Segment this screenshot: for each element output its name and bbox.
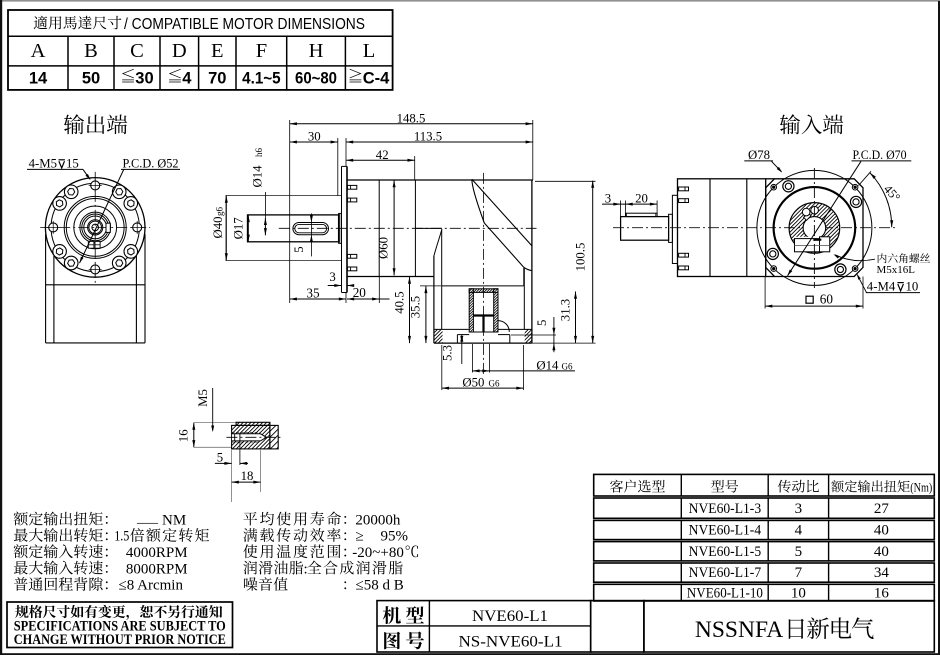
svg-text:5: 5 (795, 544, 803, 560)
svg-text:C-4: C-4 (363, 70, 390, 88)
svg-text:Ø78: Ø78 (748, 148, 770, 162)
svg-text:(Nm): (Nm) (910, 480, 932, 494)
svg-text:5.3: 5.3 (441, 345, 455, 361)
svg-text:-20~+80: -20~+80 (352, 545, 404, 561)
svg-text:NVE60-L1: NVE60-L1 (472, 608, 548, 625)
svg-text:31.3: 31.3 (558, 299, 572, 321)
svg-text:M5: M5 (196, 389, 210, 407)
svg-text:35: 35 (306, 286, 320, 301)
svg-text:20: 20 (353, 285, 367, 300)
svg-text:113.5: 113.5 (414, 129, 442, 143)
svg-text:14: 14 (29, 70, 48, 88)
svg-text:5: 5 (292, 246, 306, 252)
svg-text:60~80: 60~80 (295, 70, 337, 88)
svg-text:≤58 d B: ≤58 d B (356, 578, 404, 594)
svg-text:95%: 95% (381, 529, 409, 545)
svg-text:10: 10 (906, 279, 919, 293)
svg-text:P.C.D. Ø52: P.C.D. Ø52 (123, 156, 179, 170)
svg-text:7: 7 (795, 565, 803, 581)
svg-text:42: 42 (376, 148, 389, 162)
svg-text:20: 20 (635, 192, 648, 206)
svg-text:4: 4 (182, 70, 192, 88)
svg-text:16: 16 (874, 586, 890, 602)
svg-text:P.C.D. Ø70: P.C.D. Ø70 (853, 148, 907, 162)
svg-text:≤8 Arcmin: ≤8 Arcmin (119, 578, 184, 594)
svg-text:E: E (211, 40, 224, 62)
svg-text:4: 4 (795, 523, 803, 539)
svg-text:C: C (130, 40, 144, 62)
svg-text:≥: ≥ (356, 529, 364, 545)
svg-text:3: 3 (795, 501, 803, 517)
svg-text:NVE60-L1-4: NVE60-L1-4 (689, 523, 762, 539)
svg-text::: : (304, 561, 308, 577)
svg-text:3: 3 (329, 270, 335, 284)
svg-text:16: 16 (177, 429, 191, 442)
svg-text:1.5: 1.5 (114, 529, 129, 545)
svg-text:27: 27 (874, 501, 890, 517)
svg-text:50: 50 (82, 70, 100, 88)
svg-text:60: 60 (820, 291, 834, 306)
svg-text:148.5: 148.5 (397, 111, 426, 125)
svg-text:8000RPM: 8000RPM (126, 561, 188, 577)
svg-text:34: 34 (874, 565, 890, 581)
svg-text:Ø14: Ø14 (536, 358, 559, 372)
svg-text:L: L (363, 40, 376, 62)
svg-text:h6: h6 (254, 148, 264, 158)
svg-text:Ø40: Ø40 (211, 216, 225, 238)
svg-text:Ø14: Ø14 (250, 165, 264, 188)
svg-text:100.5: 100.5 (574, 243, 588, 272)
svg-text:40: 40 (874, 523, 889, 539)
svg-text:NS-NVE60-L1: NS-NVE60-L1 (459, 634, 563, 651)
svg-text:H: H (309, 40, 324, 62)
svg-text:70: 70 (208, 70, 226, 88)
svg-text:___: ___ (136, 511, 159, 526)
svg-text:5: 5 (217, 450, 223, 464)
svg-text:4.1~5: 4.1~5 (242, 70, 281, 88)
svg-text:30: 30 (135, 70, 153, 88)
svg-text:18: 18 (241, 469, 254, 483)
svg-text:M5x16L: M5x16L (877, 264, 916, 276)
svg-text:F: F (256, 40, 267, 62)
svg-text:A: A (31, 40, 46, 62)
svg-text:NVE60-L1-3: NVE60-L1-3 (689, 501, 762, 517)
svg-text:G6: G6 (489, 378, 500, 388)
svg-text:g6: g6 (215, 207, 225, 217)
svg-text:B: B (84, 40, 98, 62)
svg-text:D: D (172, 40, 187, 62)
svg-text:35.5: 35.5 (409, 296, 423, 318)
svg-text:Ø17: Ø17 (231, 217, 245, 240)
svg-text:NM: NM (162, 512, 186, 528)
svg-text:CHANGE WITHOUT PRIOR NOTICE: CHANGE WITHOUT PRIOR NOTICE (14, 632, 226, 648)
svg-text:NVE60-L1-7: NVE60-L1-7 (689, 565, 762, 581)
svg-text:3: 3 (605, 192, 611, 206)
svg-text:/ COMPATIBLE MOTOR DIMENSIONS: / COMPATIBLE MOTOR DIMENSIONS (124, 16, 365, 33)
svg-text:5: 5 (535, 320, 549, 326)
svg-text:40: 40 (874, 544, 889, 560)
svg-text:20000h: 20000h (355, 512, 401, 528)
svg-text:4-M5: 4-M5 (29, 156, 57, 170)
svg-text:Ø60: Ø60 (377, 237, 391, 259)
svg-text:G6: G6 (562, 361, 573, 371)
svg-text:4000RPM: 4000RPM (126, 545, 188, 561)
svg-text:40.5: 40.5 (392, 291, 406, 313)
svg-text:NVE60-L1-10: NVE60-L1-10 (687, 586, 763, 602)
svg-text:Ø50: Ø50 (462, 375, 484, 389)
svg-text:NSSNFA: NSSNFA (695, 617, 783, 643)
svg-text:4-M4: 4-M4 (867, 279, 896, 293)
svg-text:15: 15 (66, 156, 79, 170)
svg-text:10: 10 (791, 586, 806, 602)
svg-text:30: 30 (308, 129, 321, 143)
svg-text:NVE60-L1-5: NVE60-L1-5 (689, 544, 762, 560)
